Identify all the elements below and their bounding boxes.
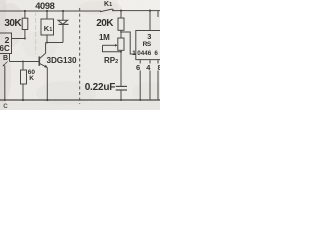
- wire: wiper tie-down L: [103, 45, 122, 52]
- wire: bottom ground rail: [0, 99, 160, 101]
- wire: base horizontal: [10, 61, 40, 63]
- junction: pin2 node: [24, 38, 26, 40]
- wire: relay K1 coil top lead: [46, 11, 48, 19]
- value label: 3DG130: [47, 56, 77, 65]
- section divider dashed line: [79, 8, 81, 104]
- value label: 60K line1: [28, 69, 35, 76]
- wire: 60K bottom lead: [22, 84, 24, 100]
- wire: right stub: [157, 11, 159, 17]
- value label: 30K: [4, 18, 21, 29]
- junction: wiper tie node: [120, 51, 122, 53]
- junction dots: [4, 10, 151, 102]
- relay K1 coil box: [41, 19, 54, 35]
- value label: 0.22uF: [85, 82, 115, 93]
- junction: 30K / top rail: [24, 10, 26, 12]
- wire: pin8 lead to ground: [157, 60, 159, 64]
- wire: pin2 horizontal: [12, 38, 25, 40]
- wire: 60K top lead: [22, 62, 24, 71]
- label: 0446: [137, 50, 151, 57]
- transistor Q1 bar: [38, 57, 40, 66]
- junction: 60K / ground rail: [22, 99, 24, 101]
- wire: collector node horizontal: [46, 42, 63, 44]
- label: contact K1: [104, 1, 112, 8]
- potentiometer wiper arrow: [103, 44, 117, 46]
- resistor 20K body: [118, 18, 124, 30]
- wire: pin4 lead to ground: [149, 60, 151, 64]
- wire: left box pin down: [9, 54, 11, 62]
- wire: diode bottom lead: [62, 24, 64, 42]
- faint crease line: [35, 11, 37, 54]
- diode D1: [58, 20, 68, 24]
- stray caption C: [3, 103, 7, 110]
- wire: pot to capacitor: [120, 50, 122, 86]
- pin number 4: [146, 63, 150, 72]
- capacitor C1 plates: [116, 85, 127, 87]
- potentiometer RP2 body: [118, 38, 124, 50]
- junction: 20K / top rail: [120, 10, 122, 12]
- pin number 8: [158, 63, 162, 72]
- pin number 3: [147, 32, 151, 41]
- junction: pin3 / top rail: [149, 10, 151, 12]
- junction: pin6 / ground rail: [139, 99, 141, 101]
- junction: RC branch node: [120, 31, 122, 33]
- node B label: [3, 55, 8, 62]
- junction: left drop / ground rail: [4, 99, 6, 101]
- junction: diode / top rail: [62, 10, 64, 12]
- wire: timing chain top lead: [120, 11, 122, 18]
- wire: top supply rail left of switch: [0, 10, 101, 12]
- wire: top supply rail right of switch: [112, 10, 160, 12]
- pin number 1: [132, 50, 136, 57]
- junction: base / 60K node: [22, 61, 24, 63]
- resistor 30K body: [22, 18, 28, 29]
- wire: pin6 lead to ground: [139, 60, 141, 64]
- wire: capacitor to ground: [120, 90, 122, 100]
- label: relay coil K1: [44, 24, 52, 33]
- transistor Q1 emitter: [39, 63, 47, 67]
- label: RS: [143, 41, 151, 48]
- paper background: [0, 0, 160, 110]
- label: 6C (cut off): [0, 44, 10, 53]
- wire: 30K bottom lead: [24, 30, 26, 39]
- wire: branch to IC pin1: [121, 32, 136, 54]
- wire: base node vertical to ground: [4, 66, 6, 100]
- IC U2 box (cut off right): [136, 31, 160, 60]
- label: RP2: [104, 56, 118, 65]
- junction: relay coil / top rail: [46, 10, 48, 12]
- junction: collector node: [46, 42, 48, 44]
- wire: emitter to ground: [46, 68, 48, 100]
- resistor 60K body: [21, 70, 27, 84]
- junction: emitter / ground rail: [46, 99, 48, 101]
- value label: 60K line2: [29, 75, 34, 82]
- value label: 20K: [96, 18, 113, 29]
- label: cut digit: [154, 50, 158, 57]
- node B arrow: [3, 62, 8, 67]
- IC box left (cut off): [0, 33, 12, 54]
- value label: 1M: [99, 33, 110, 42]
- pin number 2: [5, 35, 10, 45]
- transistor Q1 collector: [39, 43, 45, 59]
- label: IC 4098: [35, 1, 54, 11]
- pin number 6: [136, 63, 140, 72]
- switch K1 blade: [100, 9, 113, 12]
- junction: capacitor / ground rail: [120, 99, 122, 101]
- wire: relay bottom lead: [46, 35, 48, 43]
- wire: 20K to pot: [120, 30, 122, 38]
- wire: diode top lead: [62, 11, 64, 20]
- wire: 30K resistor top lead: [24, 11, 26, 18]
- wire: pin3 lead: [149, 11, 151, 31]
